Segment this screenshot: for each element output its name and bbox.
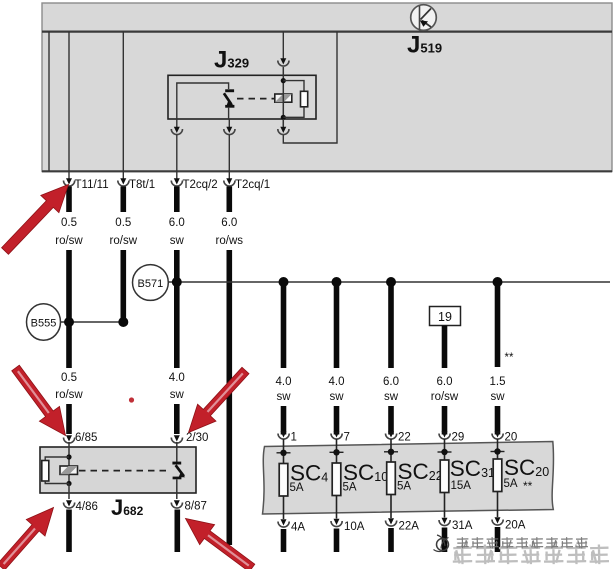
fuse SC20 group xyxy=(491,431,550,552)
svg-text:sw: sw xyxy=(329,391,344,403)
junction dot w9/B571 xyxy=(493,277,503,287)
junction dot w3/B571 xyxy=(172,277,182,287)
wire w1 label 0.5 ro/sw xyxy=(55,217,83,247)
connector 8/87 xyxy=(171,493,207,513)
terminal T11/11 xyxy=(64,178,109,191)
svg-text:ro/sw: ro/sw xyxy=(110,235,138,247)
splice B571 xyxy=(133,265,611,301)
J682 coil winding xyxy=(60,457,78,484)
svg-text:6.0: 6.0 xyxy=(169,217,185,229)
svg-text:20A: 20A xyxy=(505,520,526,532)
wire w8 label 6.0 ro/sw xyxy=(431,376,459,403)
wire w1 lower xyxy=(66,404,72,434)
svg-text:22: 22 xyxy=(398,432,411,444)
svg-text:4.0: 4.0 xyxy=(169,372,185,384)
wire w4 label 6.0 ro/ws xyxy=(216,217,244,247)
wire w8 lower xyxy=(442,406,448,435)
svg-text:8/87: 8/87 xyxy=(185,501,207,513)
svg-text:1: 1 xyxy=(291,432,297,444)
watermark small text xyxy=(457,537,588,548)
wire w8 upper xyxy=(442,326,448,369)
svg-text:5A: 5A xyxy=(290,482,304,494)
svg-text:6/85: 6/85 xyxy=(75,432,97,444)
svg-text:ro/ws: ro/ws xyxy=(216,235,244,247)
svg-text:4.0: 4.0 xyxy=(329,376,345,388)
terminal T2cq/1 xyxy=(224,178,270,191)
wire w2 upper xyxy=(121,187,127,213)
svg-text:4/86: 4/86 xyxy=(76,501,98,513)
svg-text:31A: 31A xyxy=(452,520,473,532)
wire w9 upper xyxy=(495,282,501,367)
wire w4 long xyxy=(227,250,233,545)
svg-text:10A: 10A xyxy=(344,521,365,533)
svg-text:0.5: 0.5 xyxy=(61,372,77,384)
resistor in J682 xyxy=(42,457,69,484)
svg-text:29: 29 xyxy=(452,432,465,444)
wire w1 label2 0.5 ro/sw xyxy=(55,372,83,401)
svg-text:0.5: 0.5 xyxy=(61,217,77,229)
svg-text:sw: sw xyxy=(490,391,505,403)
svg-text:7: 7 xyxy=(344,432,350,444)
continuation box 19 xyxy=(430,307,461,326)
connector below J329 coil xyxy=(278,119,289,135)
svg-text:6.0: 6.0 xyxy=(437,376,453,388)
internal supply loop right of J329 xyxy=(283,32,337,143)
wire w3 mid xyxy=(174,250,180,368)
wire w4 upper xyxy=(227,187,233,213)
J682 actuation dashed link xyxy=(79,470,170,472)
connector above J329 xyxy=(278,32,289,67)
connector 6/85 xyxy=(64,432,98,457)
control unit J519 body xyxy=(42,3,612,172)
svg-text:6.0: 6.0 xyxy=(383,376,399,388)
svg-text:4A: 4A xyxy=(291,522,305,534)
svg-text:5A: 5A xyxy=(504,478,518,490)
J682 coil exit wire xyxy=(68,484,70,494)
J329 coil feed wire xyxy=(282,67,284,126)
wire w7 upper xyxy=(388,282,394,368)
svg-text:T2cq/1: T2cq/1 xyxy=(235,179,270,191)
wire w6 label 4.0 sw xyxy=(329,376,345,403)
internal feed line (left spare) xyxy=(48,32,50,171)
splice B555 xyxy=(27,304,124,341)
svg-text:ro/sw: ro/sw xyxy=(431,391,459,403)
junction node lower (J329) xyxy=(281,115,286,120)
svg-text:5A: 5A xyxy=(343,482,357,494)
relay J682 box xyxy=(40,447,196,493)
junction node upper (J682) xyxy=(66,454,71,459)
wire w5 lower xyxy=(281,406,287,435)
junction node lower (J682) xyxy=(66,481,71,486)
J329 contact switch xyxy=(224,89,235,119)
svg-text:sw: sw xyxy=(276,391,291,403)
svg-text:2/30: 2/30 xyxy=(186,432,208,444)
J329 actuation dashed link xyxy=(237,98,274,100)
J329 internal wire from contact to pin 2 xyxy=(177,83,229,119)
wire w3 label2 4.0 sw xyxy=(169,372,185,401)
svg-text:**: ** xyxy=(505,352,514,364)
svg-text:T11/11: T11/11 xyxy=(75,179,109,191)
svg-text:T8t/1: T8t/1 xyxy=(129,179,155,191)
svg-text:**: ** xyxy=(523,479,533,493)
internal wire to T11/11 xyxy=(68,32,70,180)
internal wire to T8t/1 xyxy=(122,32,124,180)
J682 contact switch xyxy=(172,462,185,493)
terminal T2cq/2 xyxy=(171,178,217,191)
fuse SC31 group xyxy=(438,431,496,552)
wire w7 lower xyxy=(388,406,394,435)
wire w3 tail xyxy=(175,510,181,553)
svg-text:5A: 5A xyxy=(397,481,411,493)
svg-text:T2cq/2: T2cq/2 xyxy=(183,179,218,191)
junction dot w1/B555 xyxy=(64,317,74,327)
wire w6 upper xyxy=(334,282,340,368)
relay J329 box xyxy=(168,75,316,119)
svg-text:4.0: 4.0 xyxy=(276,376,292,388)
svg-text:sw: sw xyxy=(170,389,185,401)
fuse SC22 group xyxy=(384,431,443,552)
wire w3 label 6.0 sw xyxy=(169,217,185,247)
svg-text:22A: 22A xyxy=(399,521,420,533)
junction dot w7/B571 xyxy=(386,277,396,287)
svg-text:B555: B555 xyxy=(31,318,57,330)
connector 2/30 xyxy=(171,432,208,462)
connector below J329 pin1 xyxy=(224,119,235,180)
fuse SC10 group xyxy=(330,431,389,552)
svg-text:sw: sw xyxy=(170,235,185,247)
svg-text:B571: B571 xyxy=(138,278,164,290)
wire w9 label 1.5 sw xyxy=(490,376,506,403)
svg-text:1.5: 1.5 xyxy=(490,376,506,388)
svg-text:0.5: 0.5 xyxy=(115,217,131,229)
red arrow at 2/30 xyxy=(189,367,250,432)
wire w7 label 6.0 sw xyxy=(383,376,399,403)
wire w5 label 4.0 sw xyxy=(276,376,292,403)
svg-text:19: 19 xyxy=(438,310,452,324)
watermark icon xyxy=(434,535,449,552)
svg-text:20: 20 xyxy=(505,432,518,444)
wire w2 lower xyxy=(121,250,127,324)
junction dot w2/B555 xyxy=(118,317,128,327)
wire w5 upper xyxy=(281,282,287,368)
wire w3 upper xyxy=(174,187,180,213)
svg-text:ro/sw: ro/sw xyxy=(55,389,83,401)
stray red dot xyxy=(129,397,134,402)
junction dot w5/B571 xyxy=(279,277,289,287)
svg-text:6.0: 6.0 xyxy=(221,217,237,229)
bolted connection symbol on J519 xyxy=(411,5,437,31)
fuse SC4 group xyxy=(277,431,329,552)
bus bar (terminal rail inside J519) xyxy=(42,31,612,33)
svg-text:15A: 15A xyxy=(451,480,472,492)
wire w1 mid xyxy=(66,250,72,368)
connector below J329 pin2 xyxy=(171,119,182,180)
red arrow at 4/86 xyxy=(0,508,53,569)
red arrow at 6/85 xyxy=(12,365,66,435)
wire w1 tail xyxy=(66,510,72,553)
watermark large text xyxy=(453,545,609,565)
wire w1 upper xyxy=(66,187,72,213)
junction node upper (J329) xyxy=(281,78,286,83)
fuse panel band xyxy=(263,442,554,515)
svg-text:sw: sw xyxy=(384,391,399,403)
red arrow at T11/11 xyxy=(2,185,69,255)
junction dot w6/B571 xyxy=(332,277,342,287)
wire w6 lower xyxy=(334,406,340,435)
wire w2 label 0.5 ro/sw xyxy=(110,217,138,247)
svg-text:ro/sw: ro/sw xyxy=(55,235,83,247)
connector 4/86 xyxy=(64,493,98,513)
wire w3 lower xyxy=(174,404,180,434)
terminal T8t/1 xyxy=(118,178,155,191)
resistor in J329 xyxy=(283,81,307,118)
red arrow at 8/87 xyxy=(186,519,255,569)
J329 coil winding xyxy=(275,94,292,102)
wire w9 lower xyxy=(495,406,501,435)
